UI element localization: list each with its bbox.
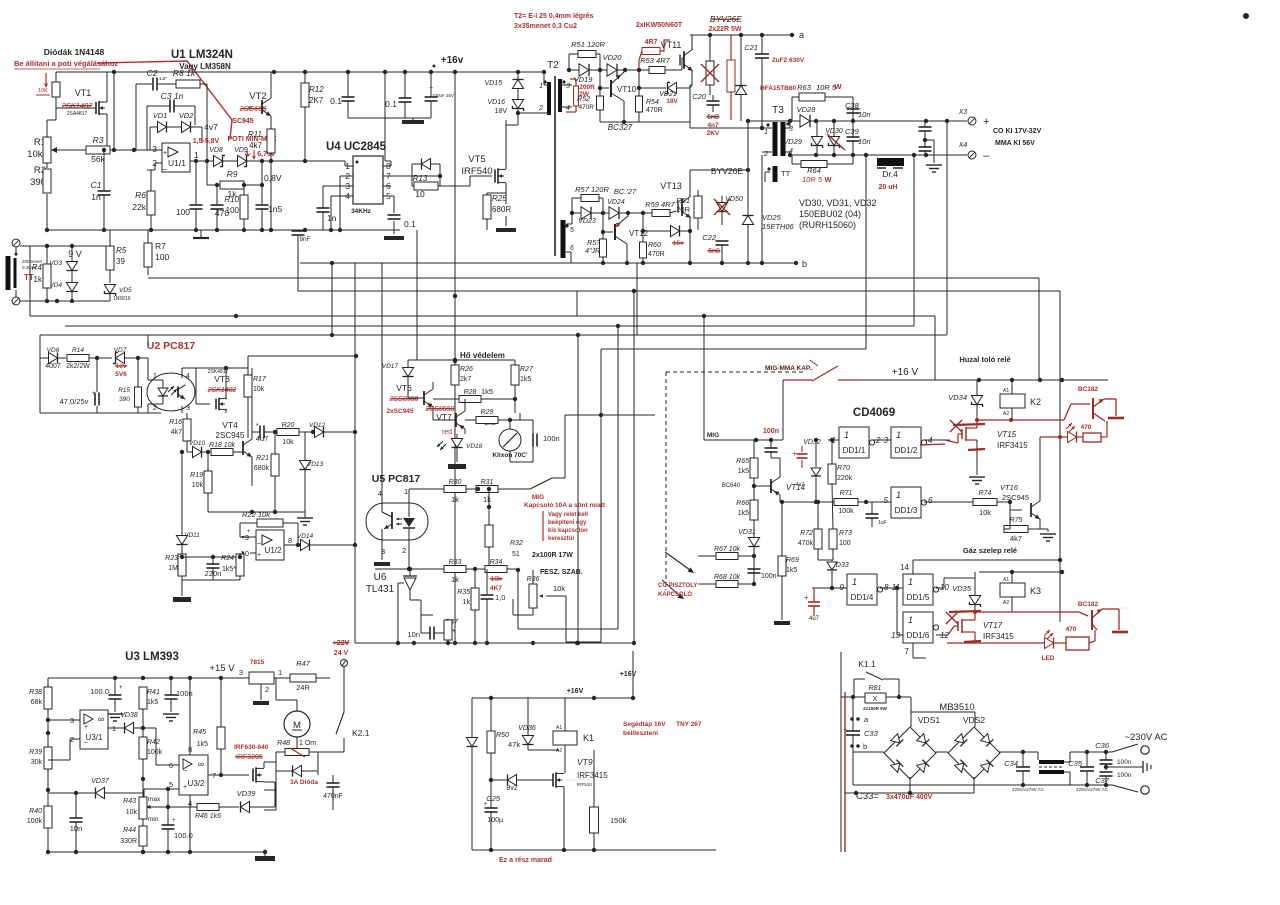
svg-text:1k5: 1k5: [520, 376, 531, 383]
svg-text:1k5: 1k5: [481, 387, 493, 396]
op-amp U3/1: [80, 710, 108, 749]
svg-text:VT10: VT10: [617, 85, 637, 94]
svg-text:3: 3: [566, 83, 570, 90]
svg-text:R8 1k: R8 1k: [173, 68, 196, 78]
EMI transformer: [1039, 760, 1064, 764]
vertical x382 to U5 pin4: [381, 263, 383, 512]
svg-text:VT3: VT3: [214, 374, 230, 384]
wire +15V rail: [48, 677, 240, 679]
svg-text:VD36: VD36: [518, 725, 536, 732]
svg-text:+: +: [792, 449, 797, 458]
svg-text:A2: A2: [1003, 600, 1009, 606]
svg-text:VT13: VT13: [660, 181, 682, 191]
svg-text:0.1: 0.1: [330, 96, 342, 106]
svg-text:6: 6: [928, 496, 933, 505]
vertical x355: [354, 263, 356, 643]
svg-text:M: M: [293, 720, 301, 731]
U5 LED: [408, 490, 410, 517]
svg-text:1k5: 1k5: [147, 699, 158, 706]
red wire K2 drive: [977, 419, 1064, 421]
svg-text:10k: 10k: [490, 576, 502, 583]
svg-text:2SC945: 2SC945: [1002, 493, 1029, 502]
svg-text:1 Om: 1 Om: [299, 740, 316, 747]
svg-text:Kapcsoló 10A a sönt miatt: Kapcsoló 10A a sönt miatt: [524, 502, 606, 509]
svg-text:U4 UC2845: U4 UC2845: [326, 141, 387, 153]
svg-text:BC640: BC640: [722, 483, 741, 489]
svg-text:1: 1: [194, 150, 199, 160]
svg-text:R64: R64: [807, 166, 821, 175]
T2 winding leads lower: [566, 223, 572, 225]
wire input row: [20, 245, 110, 247]
svg-text:R26: R26: [460, 366, 473, 373]
diode aux a: [466, 738, 477, 747]
ground symbol caps: [402, 120, 424, 124]
svg-text:MMA KI 56V: MMA KI 56V: [995, 140, 1035, 147]
svg-text:+: +: [163, 150, 167, 157]
svg-text:C33=: C33=: [856, 791, 879, 802]
svg-text:K3: K3: [1030, 586, 1041, 596]
optocoupler U5: [366, 503, 428, 540]
inverter DD1/3: [891, 487, 921, 518]
svg-text:CO PISZTOLY: CO PISZTOLY: [658, 583, 697, 589]
svg-text:470R: 470R: [578, 104, 594, 111]
svg-text:470R: 470R: [646, 107, 663, 114]
red mosfet VT15 body: [961, 429, 963, 439]
wire drive row lower: [572, 212, 653, 214]
output filter caps: [919, 126, 932, 128]
svg-text:2K7: 2K7: [309, 96, 324, 105]
svg-text:IRF3205: IRF3205: [236, 754, 263, 761]
svg-text:56k: 56k: [91, 154, 105, 164]
svg-text:+: +: [247, 529, 251, 535]
svg-text:∞: ∞: [198, 759, 204, 769]
diode VD34 zener: [971, 396, 982, 408]
svg-text:2x100R 17W: 2x100R 17W: [532, 552, 573, 559]
inverter DD1/2: [891, 427, 921, 458]
svg-text:VT5: VT5: [468, 154, 485, 165]
vertical x577: [576, 291, 578, 316]
svg-text:10n: 10n: [858, 110, 871, 119]
svg-text:+: +: [172, 818, 176, 824]
svg-text:VD39: VD39: [237, 789, 257, 798]
svg-text:R45: R45: [193, 729, 206, 736]
svg-text:∞: ∞: [98, 714, 104, 724]
svg-text:1k: 1k: [463, 599, 471, 606]
inverter DD1/4: [847, 574, 877, 605]
svg-text:VD37: VD37: [91, 778, 110, 785]
svg-text:+16v: +16v: [441, 55, 464, 66]
wire top bus +16v left: [56, 71, 544, 73]
diode VD19 position: [579, 64, 589, 76]
red wire gate long: [920, 444, 945, 445]
svg-text:beépíteni egy: beépíteni egy: [548, 520, 587, 526]
svg-text:2k2/2W: 2k2/2W: [66, 363, 90, 370]
svg-text:DD1/5: DD1/5: [907, 593, 930, 602]
svg-text:MIG: MIG: [707, 432, 719, 439]
svg-text:R25: R25: [492, 194, 507, 203]
svg-text:4K7: 4K7: [490, 585, 502, 592]
svg-text:C20: C20: [692, 92, 707, 101]
diode over R13: [422, 158, 431, 169]
svg-text:68k: 68k: [31, 699, 43, 706]
svg-text:CD4069: CD4069: [853, 407, 895, 419]
svg-text:1k5: 1k5: [786, 567, 797, 574]
svg-text:18V: 18V: [666, 98, 678, 105]
svg-text:R22 10k: R22 10k: [242, 510, 271, 519]
svg-text:kis kapcsolón: kis kapcsolón: [548, 528, 588, 534]
svg-text:R14: R14: [72, 347, 84, 354]
red LED and 470 a: [1066, 422, 1076, 432]
MIG switch to sense wire y415: [565, 414, 601, 416]
svg-text:20 uH: 20 uH: [878, 184, 897, 191]
red mosfet VT17 body: [957, 621, 959, 631]
svg-text:8: 8: [288, 536, 292, 545]
svg-text:2SC945: 2SC945: [216, 431, 245, 440]
op-amp U1/1: [162, 143, 190, 172]
U5 ground bar: [374, 562, 390, 566]
svg-text:BC182: BC182: [1078, 601, 1099, 608]
red pointer line from annotation to POTI MIN-MAX: [97, 61, 232, 139]
svg-text:VD32: VD32: [803, 439, 821, 446]
svg-text:5: 5: [570, 227, 574, 234]
svg-text:0.1: 0.1: [404, 219, 416, 229]
svg-text:1: 1: [539, 83, 543, 90]
svg-text:10n: 10n: [407, 630, 420, 639]
svg-text:X: X: [873, 696, 878, 703]
svg-text:1: 1: [764, 129, 768, 136]
svg-text:R54: R54: [646, 99, 659, 106]
wire bus y326: [65, 325, 914, 327]
svg-text:VD20: VD20: [603, 53, 623, 62]
diode clamp upper: [735, 86, 746, 95]
svg-text:100k: 100k: [838, 508, 854, 515]
svg-text:6: 6: [570, 245, 574, 252]
svg-text:MIG: MIG: [532, 494, 544, 501]
terminal circle left: [341, 660, 348, 667]
svg-text:C22: C22: [702, 233, 717, 242]
svg-text:100k: 100k: [147, 749, 163, 756]
svg-text:1k5: 1k5: [197, 741, 208, 748]
wire AC after filter: [1070, 751, 1112, 753]
svg-text:A2: A2: [556, 748, 562, 754]
vertical x455: [454, 72, 456, 643]
svg-text:R48: R48: [277, 740, 290, 747]
svg-text:W: W: [834, 82, 842, 91]
svg-text:BC.'27: BC.'27: [614, 187, 637, 196]
svg-text:1k5*: 1k5*: [222, 566, 236, 573]
svg-text:470: 470: [1066, 626, 1077, 633]
svg-text:MB3510: MB3510: [939, 702, 974, 713]
svg-text:2: 2: [538, 105, 543, 112]
svg-text:R12: R12: [309, 85, 324, 94]
svg-text:+16V: +16V: [620, 671, 637, 678]
svg-text:0,8V: 0,8V: [264, 173, 282, 183]
node a: [690, 34, 792, 36]
T3 aux winding TT: [773, 166, 778, 182]
svg-text:+: +: [983, 116, 989, 128]
svg-text:4k7: 4k7: [171, 429, 182, 436]
svg-text:VD30, VD31, VD32: VD30, VD31, VD32: [799, 198, 877, 208]
svg-text:C36: C36: [1095, 741, 1110, 750]
svg-text:1: 1: [844, 430, 849, 440]
ground bar VD18: [448, 464, 466, 469]
node b: [620, 262, 796, 264]
switch K1.1: [866, 672, 883, 680]
svg-text:150EBU02 (04): 150EBU02 (04): [799, 209, 861, 219]
svg-text:K2: K2: [1030, 397, 1041, 407]
svg-text:10K: 10K: [38, 88, 48, 94]
svg-text:b: b: [802, 259, 807, 269]
svg-text:3: 3: [152, 144, 157, 154]
svg-text:100: 100: [226, 206, 240, 215]
svg-text:A2: A2: [1003, 411, 1009, 417]
svg-text:VD2: VD2: [179, 111, 194, 120]
svg-text:1k: 1k: [451, 495, 459, 504]
svg-text:Huzal toló relé: Huzal toló relé: [959, 355, 1010, 364]
svg-text:4-: 4-: [245, 151, 252, 158]
svg-text:R63: R63: [797, 83, 812, 92]
svg-text:20R: 20R: [676, 205, 690, 214]
svg-text:1: 1: [896, 490, 901, 500]
svg-text:3x35menet 0,3 Cu2: 3x35menet 0,3 Cu2: [514, 23, 577, 30]
svg-text:6n8: 6n8: [707, 114, 719, 121]
svg-text:470R: 470R: [648, 251, 665, 258]
svg-text:R11: R11: [248, 130, 262, 139]
svg-text:100: 100: [839, 540, 851, 547]
inverter DD1/6: [903, 612, 933, 643]
svg-text:VT17: VT17: [983, 621, 1003, 630]
svg-text:22k: 22k: [132, 202, 146, 212]
fuse: [52, 82, 60, 97]
svg-text:U1 LM324N: U1 LM324N: [171, 49, 233, 61]
ground bar u3: [264, 809, 276, 811]
capacitor 1uF dd13: [866, 513, 879, 515]
wire motor bottom: [264, 789, 276, 791]
svg-text:100k: 100k: [27, 818, 43, 825]
wire X3 down: [946, 121, 948, 335]
svg-text:–: –: [257, 540, 261, 547]
svg-text:1k5: 1k5: [738, 510, 749, 517]
svg-text:+16 V: +16 V: [892, 367, 919, 378]
svg-text:10R 5: 10R 5: [802, 175, 823, 184]
svg-text:8v2: 8v2: [506, 785, 517, 792]
svg-text:1n: 1n: [91, 192, 101, 202]
svg-text:Ez a rész marad: Ez a rész marad: [499, 857, 552, 864]
svg-text:+: +: [119, 685, 123, 691]
svg-text:+: +: [257, 552, 261, 559]
ground bar U1/2: [181, 594, 183, 596]
svg-text:IRF3415: IRF3415: [577, 771, 608, 780]
svg-text:4007: 4007: [45, 363, 61, 370]
svg-text:1,5-5,8V: 1,5-5,8V: [193, 138, 220, 145]
svg-text:C21: C21: [744, 43, 758, 52]
red wire K3 drive: [975, 611, 1079, 613]
svg-text:390: 390: [119, 396, 130, 403]
wire AC return: [852, 752, 854, 785]
svg-text:R68 10k: R68 10k: [714, 574, 741, 581]
svg-text:150k: 150k: [610, 816, 627, 825]
svg-text:A1: A1: [1003, 388, 1009, 394]
svg-text:4: 4: [378, 489, 382, 498]
svg-text:R31: R31: [481, 479, 494, 486]
svg-text:R3: R3: [93, 135, 104, 145]
svg-text:4n7: 4n7: [707, 122, 719, 129]
svg-text:Dr.4: Dr.4: [882, 169, 898, 179]
vertical x866 shunt sense: [865, 155, 867, 349]
svg-text:VD34: VD34: [948, 393, 967, 402]
svg-text:R71: R71: [840, 490, 853, 497]
svg-text:beilleszteni: beilleszteni: [623, 730, 658, 737]
svg-text:R28: R28: [464, 389, 477, 396]
svg-text:R17: R17: [253, 376, 267, 383]
svg-text:4: 4: [186, 373, 190, 380]
svg-text:R42: R42: [147, 739, 160, 746]
svg-text:10k: 10k: [979, 508, 991, 517]
svg-text:VD10: VD10: [189, 440, 206, 447]
svg-text:TNY 267: TNY 267: [676, 721, 702, 728]
svg-text:R21: R21: [256, 455, 269, 462]
svg-text:5: 5: [884, 496, 889, 505]
wire lower rail: [575, 262, 620, 264]
svg-text:2: 2: [153, 405, 157, 412]
svg-text:R30: R30: [449, 479, 462, 486]
svg-text:4R7: 4R7: [645, 39, 658, 46]
svg-text:R44: R44: [123, 827, 136, 834]
svg-text:R19: R19: [190, 472, 203, 479]
svg-text:DD1/4: DD1/4: [851, 593, 874, 602]
svg-text:R65: R65: [736, 458, 749, 465]
svg-text:C33: C33: [864, 729, 879, 738]
svg-text:3A Dióda: 3A Dióda: [290, 779, 318, 786]
dashed MIG-MMA wire: [665, 372, 667, 590]
svg-text:1: 1: [908, 577, 913, 587]
input terminal X1: [12, 239, 20, 247]
svg-text:1: 1: [908, 615, 913, 625]
svg-text:5V6: 5V6: [115, 371, 127, 378]
svg-text:VT1: VT1: [75, 88, 92, 98]
svg-text:FESZ. SZAB.: FESZ. SZAB.: [540, 569, 583, 576]
svg-text:1k: 1k: [451, 575, 459, 584]
svg-text:1k: 1k: [34, 275, 43, 284]
svg-text:VT9: VT9: [577, 757, 593, 767]
svg-text:X3: X3: [958, 109, 968, 116]
svg-text:220k: 220k: [837, 475, 853, 482]
vertical x332: [331, 263, 333, 335]
svg-text:VT12: VT12: [629, 229, 649, 238]
svg-text:a: a: [799, 30, 804, 40]
svg-text:9 V: 9 V: [68, 249, 82, 259]
svg-text:Vagy relét kell: Vagy relét kell: [548, 512, 588, 518]
svg-text:BYV26E: BYV26E: [711, 166, 743, 176]
svg-text:U5 PC817: U5 PC817: [372, 473, 421, 485]
svg-text:4"JR: 4"JR: [585, 248, 600, 255]
svg-text:7815: 7815: [250, 659, 265, 666]
svg-text:IRF3415: IRF3415: [983, 632, 1014, 641]
svg-text:47,0/25v: 47,0/25v: [60, 397, 89, 406]
ground bus y230: [47, 229, 400, 231]
2x22R resistors: [706, 61, 714, 85]
svg-text:R72: R72: [800, 530, 813, 537]
svg-text:2: 2: [265, 685, 269, 694]
vertical x634: [633, 291, 635, 643]
svg-text:+22V: +22V: [333, 640, 350, 647]
wire emitter rail: [600, 121, 639, 123]
earth symbol mains: [1106, 766, 1143, 768]
wire T2 sec to IGBT rail: [690, 169, 748, 171]
svg-text:680R: 680R: [492, 205, 511, 214]
Klixon thermostat: [499, 429, 521, 451]
svg-text:LED: LED: [1042, 655, 1055, 662]
svg-text:100n: 100n: [543, 434, 560, 443]
svg-text:R39: R39: [29, 749, 42, 756]
svg-text:R10: R10: [224, 195, 239, 204]
svg-text:1: 1: [153, 373, 157, 380]
svg-text:K1.1: K1.1: [858, 659, 876, 669]
svg-text:DD1/2: DD1/2: [895, 446, 918, 455]
relay K1: [553, 731, 577, 745]
svg-text:red: red: [442, 429, 452, 436]
svg-text:4v7: 4v7: [204, 122, 218, 132]
svg-text:3x470uF 400V: 3x470uF 400V: [886, 794, 933, 801]
svg-text:VD31: VD31: [738, 529, 756, 536]
svg-text:keresztül: keresztül: [548, 536, 574, 542]
svg-text:100n: 100n: [1117, 759, 1132, 766]
svg-text:24R: 24R: [296, 683, 310, 692]
svg-text:R9: R9: [227, 169, 238, 179]
wire pin7 drive: [391, 175, 440, 177]
svg-text:U1/2: U1/2: [265, 546, 282, 555]
wire bus y335: [40, 334, 947, 336]
svg-text:10n: 10n: [858, 137, 871, 146]
svg-text:TT: TT: [781, 169, 791, 178]
svg-text:4k7: 4k7: [249, 141, 262, 150]
resistor R57: [581, 195, 599, 202]
vertical x637: [636, 263, 638, 335]
svg-text:SC945: SC945: [232, 118, 254, 125]
svg-text:4u7: 4u7: [809, 616, 820, 622]
svg-text:4u7: 4u7: [256, 434, 269, 443]
vertical x417: [416, 230, 418, 360]
U5 led arrows: [396, 518, 402, 520]
wire +16V rail relays: [860, 379, 1108, 381]
svg-text:U1/1: U1/1: [168, 158, 186, 168]
svg-text:KAPCSOLÓ: KAPCSOLÓ: [658, 590, 692, 598]
svg-text:U6: U6: [374, 572, 387, 583]
svg-text:470k: 470k: [798, 540, 814, 547]
svg-text:R69: R69: [786, 557, 799, 564]
diode clamp lower: [742, 216, 753, 225]
svg-text:39: 39: [116, 257, 125, 266]
svg-text:R40: R40: [29, 808, 42, 815]
ground symbol VT5: [496, 228, 516, 232]
svg-text:VT4: VT4: [222, 420, 238, 430]
svg-text:R66: R66: [736, 500, 749, 507]
svg-text:R41: R41: [147, 689, 160, 696]
vertical x601: [600, 349, 602, 642]
svg-text:VD15: VD15: [484, 80, 502, 87]
svg-text:R7: R7: [155, 241, 166, 251]
svg-text:4k7: 4k7: [1010, 534, 1022, 543]
svg-text:R16: R16: [169, 419, 182, 426]
svg-text:+16V: +16V: [567, 688, 584, 695]
current transformer TT: [6, 256, 11, 290]
svg-text:1k: 1k: [483, 495, 491, 504]
svg-text:R53 4R7: R53 4R7: [640, 56, 670, 65]
red vertical mains: [844, 692, 846, 852]
transistor VT8 mosfet: [252, 768, 254, 781]
svg-text:R15: R15: [118, 387, 130, 394]
svg-text:R38: R38: [29, 689, 42, 696]
